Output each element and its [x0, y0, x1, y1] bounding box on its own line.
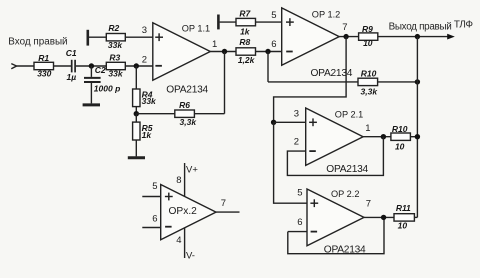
node output — [415, 34, 420, 39]
input arrow — [11, 64, 16, 69]
svg-text:5: 5 — [152, 181, 157, 192]
svg-text:R1: R1 — [38, 53, 49, 63]
resistor R10 (10) — [391, 133, 411, 140]
minus sign OP2.1 — [309, 150, 316, 152]
minus sign OP2.2 — [311, 231, 318, 233]
svg-text:6: 6 — [271, 39, 276, 50]
minus sign OP1.1 — [155, 65, 162, 67]
wire R11 to rail — [414, 216, 417, 218]
resistor R1 — [34, 62, 54, 69]
wire C1 to R3 — [76, 65, 106, 67]
wire OP2.1 feedback loop — [287, 137, 383, 176]
svg-text:3: 3 — [142, 25, 147, 36]
wire R5 to ground — [135, 140, 137, 156]
resistor R6 — [175, 110, 195, 117]
wire OPx.2 pin6 stub — [142, 227, 160, 229]
svg-text:V+: V+ — [186, 165, 198, 176]
svg-text:10: 10 — [395, 142, 405, 152]
svg-text:1: 1 — [365, 123, 370, 134]
minus sign OPx.2 — [165, 226, 172, 228]
node rail/R10b — [415, 134, 420, 139]
op-amp U1 OP1.1 — [153, 23, 211, 81]
wire OP2.2 output — [364, 216, 394, 218]
svg-text:2: 2 — [294, 136, 299, 147]
svg-text:OPA2134: OPA2134 — [326, 164, 368, 175]
wire R2 to pin3 — [125, 36, 153, 38]
wire to OP2.1 pin3 — [274, 121, 306, 123]
wire to R10 feedback — [268, 81, 358, 83]
svg-text:OP 2.2: OP 2.2 — [331, 189, 359, 199]
svg-text:R6: R6 — [179, 100, 190, 110]
wire gnd to R7 — [220, 21, 236, 23]
svg-text:OPx.2: OPx.2 — [169, 206, 198, 217]
wire OP2.2 pin6 — [288, 231, 307, 233]
wire R3 to pin2 — [125, 65, 153, 67]
svg-text:R7: R7 — [239, 9, 251, 19]
svg-text:6: 6 — [297, 217, 302, 228]
wire R8 to pin6 — [256, 51, 282, 53]
output arrowhead — [447, 34, 455, 40]
node R4/R5/R6 — [134, 111, 139, 116]
svg-text:1,2k: 1,2k — [238, 55, 256, 65]
svg-text:4: 4 — [176, 235, 181, 246]
plus sign OP2.2 — [310, 199, 318, 207]
wire pin6 node down — [267, 52, 269, 82]
svg-text:Вход правый: Вход правый — [8, 36, 67, 47]
svg-text:3,3k: 3,3k — [180, 117, 198, 127]
svg-text:1: 1 — [212, 39, 217, 50]
minus sign OP1.2 — [286, 51, 293, 53]
svg-text:OPA2134: OPA2134 — [166, 85, 208, 96]
wire input to R1 — [17, 65, 34, 67]
wire OP2.1 output — [363, 136, 391, 138]
resistor R5 — [133, 122, 140, 140]
node R4 tap — [134, 63, 139, 68]
wire pin2 node down to R4 — [135, 66, 137, 89]
svg-text:R3: R3 — [109, 52, 120, 62]
resistor R9 — [359, 33, 378, 40]
wire R4 to node — [135, 107, 137, 114]
node pin6 tap — [265, 49, 270, 54]
svg-text:6: 6 — [152, 213, 157, 224]
svg-text:2: 2 — [142, 55, 147, 66]
ground (below C2) — [83, 103, 100, 106]
wire pin3 node down to OP2.2 pin5 — [274, 122, 307, 203]
wire OPx.2 V+ pin8 — [184, 163, 186, 196]
plus sign OPx.2 — [165, 193, 173, 201]
resistor R3 — [106, 62, 125, 69]
svg-text:OPA2134: OPA2134 — [311, 68, 353, 79]
ground bar (R7 left) — [217, 15, 220, 30]
wire OP1.2 output — [339, 36, 358, 38]
svg-text:1k: 1k — [240, 27, 251, 37]
node rail/R10 — [415, 79, 420, 84]
node OP2.2 output — [381, 215, 386, 220]
svg-text:3: 3 — [294, 109, 299, 120]
wire R6 to node — [136, 113, 175, 115]
svg-text:5: 5 — [297, 187, 302, 198]
wire OPx.2 output stub — [216, 211, 240, 213]
svg-text:7: 7 — [342, 22, 347, 33]
svg-text:33k: 33k — [108, 40, 123, 50]
ground (below R5) — [128, 156, 145, 159]
wire R9 to output node — [378, 36, 448, 38]
node OP2.1 output — [381, 134, 386, 139]
wire right rail vertical — [416, 37, 418, 218]
plus sign OP1.2 — [286, 18, 294, 26]
wire OPx.2 pin5 stub — [142, 196, 160, 198]
wire R1 to C1 — [54, 65, 72, 67]
svg-text:C1: C1 — [66, 48, 77, 58]
resistor R11 — [394, 214, 414, 221]
wire OP2.2 feedback loop — [288, 217, 384, 253]
op-amp U3 OP2.1 — [306, 108, 363, 165]
wire OP1.1 output — [210, 51, 236, 53]
op-amp U5 OPx.2 — [161, 185, 216, 240]
svg-text:1k: 1k — [142, 130, 153, 140]
svg-text:33k: 33k — [108, 68, 123, 78]
capacitor C2 — [84, 78, 101, 82]
svg-text:8: 8 — [176, 175, 181, 186]
capacitor C1 — [72, 60, 75, 73]
svg-text:R2: R2 — [108, 23, 119, 33]
svg-text:OP 2.1: OP 2.1 — [335, 110, 363, 120]
wire gnd to R2 — [89, 36, 106, 38]
plus sign OP1.1 — [155, 33, 163, 41]
resistor R4 — [133, 89, 140, 107]
wire R10 to right rail — [378, 81, 418, 83]
wire node to R5 — [135, 114, 137, 122]
svg-text:R10: R10 — [392, 124, 408, 134]
resistor R8 — [236, 48, 256, 55]
svg-text:1µ: 1µ — [66, 72, 76, 82]
svg-text:R10: R10 — [361, 68, 377, 78]
wire C2 to ground — [90, 83, 92, 103]
op-amp U2 OP1.2 — [282, 8, 340, 65]
resistor R7 — [236, 18, 256, 25]
resistor R2 — [106, 34, 125, 41]
svg-text:C2: C2 — [95, 65, 106, 75]
svg-text:R9: R9 — [362, 24, 373, 34]
svg-text:7: 7 — [221, 198, 226, 209]
ground bar (R2 left) — [87, 30, 90, 46]
svg-text:7: 7 — [366, 199, 371, 210]
wire feedback down — [224, 52, 226, 114]
node C2 tap — [89, 63, 94, 68]
node OP2.1 pin3 tap — [271, 120, 276, 125]
svg-text:R11: R11 — [396, 203, 411, 213]
svg-text:V-: V- — [186, 251, 195, 262]
svg-text:10: 10 — [398, 221, 408, 231]
svg-text:33k: 33k — [142, 96, 157, 106]
wire OPx.2 V- pin4 — [184, 228, 186, 258]
svg-text:3,3k: 3,3k — [361, 86, 379, 96]
svg-text:OP 1.2: OP 1.2 — [312, 10, 340, 20]
wire down to C2 — [90, 66, 92, 77]
svg-text:OP 1.1: OP 1.1 — [182, 24, 210, 34]
svg-text:OPA2134: OPA2134 — [324, 245, 366, 256]
svg-text:R8: R8 — [239, 37, 250, 47]
resistor R10 (3,3k) — [358, 78, 378, 85]
plus sign OP2.1 — [309, 118, 317, 126]
node OP1.1 output — [222, 49, 227, 54]
svg-text:Выход правый ТЛФ: Выход правый ТЛФ — [389, 20, 473, 33]
svg-text:10: 10 — [363, 38, 373, 48]
node OP1.2 output — [343, 34, 348, 39]
svg-text:330: 330 — [37, 68, 51, 78]
wire to R6 — [194, 113, 224, 115]
op-amp U4 OP2.2 — [307, 189, 364, 246]
svg-text:5: 5 — [271, 10, 276, 21]
svg-text:1000 p: 1000 p — [94, 84, 120, 94]
wire R10 to rail — [410, 136, 417, 138]
wire R7 to pin5 — [256, 21, 282, 23]
wire OP1.2 out down — [274, 37, 347, 123]
